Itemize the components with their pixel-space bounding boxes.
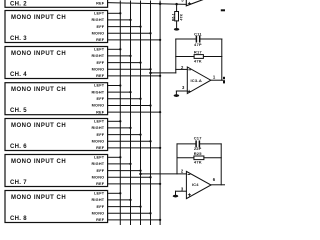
node CH.6 REF junction: [159, 147, 161, 149]
node CH.5 LEFT junction: [119, 84, 121, 86]
wire CH.6 RIGHT stub: [108, 127, 131, 129]
svg-text:REF: REF: [96, 182, 105, 186]
wire pin3 ground stem: [175, 91, 177, 94]
svg-text:REF: REF: [96, 218, 105, 222]
wire CH.4 RIGHT stub: [108, 55, 131, 57]
node CH.3 MONO junction: [149, 32, 151, 34]
svg-text:47K: 47K: [194, 58, 202, 63]
label + of U-top: [188, 2, 190, 4]
svg-text:47K: 47K: [179, 13, 183, 20]
wire CH.8 EFF stub: [108, 206, 141, 208]
node CH.5 MONO junction: [149, 104, 151, 106]
wire CH.4 MONO stub: [108, 68, 151, 70]
wire CH.3 REF stub: [108, 39, 161, 41]
block CH.2 (mono input channel, cut at top): [5, 0, 108, 7]
wire CH.6 LEFT stub: [108, 120, 121, 122]
svg-text:MONO INPUT CH: MONO INPUT CH: [11, 159, 66, 165]
wire CH.3 RIGHT stub: [108, 19, 131, 21]
svg-text:MONO: MONO: [92, 140, 105, 144]
wire CH.2 REF to top op-amp: [108, 3, 187, 5]
wire R17 rail right: [203, 56, 221, 58]
svg-text:RIGHT: RIGHT: [91, 126, 104, 130]
node CH.7 MONO junction: [149, 176, 151, 178]
svg-text:MONO INPUT CH: MONO INPUT CH: [11, 123, 66, 129]
op-amp IC3-A: [187, 67, 211, 94]
ground at IC4 pin3: [173, 195, 178, 198]
node CH.8 RIGHT junction: [129, 199, 131, 201]
label minus of IC3-A: [189, 69, 191, 71]
svg-text:IC4: IC4: [192, 182, 199, 187]
svg-text:R17: R17: [194, 49, 203, 54]
node CH.6 LEFT junction: [119, 120, 121, 122]
wire C11 rail left: [176, 38, 196, 40]
node CH.8 MONO junction: [149, 212, 151, 214]
svg-text:MONO INPUT CH: MONO INPUT CH: [11, 195, 66, 201]
wire EFF bus tap to IC4 pin2: [141, 173, 187, 175]
svg-text:LEFT: LEFT: [94, 120, 105, 124]
svg-text:RIGHT: RIGHT: [91, 198, 104, 202]
ground at IC3-A pin3: [174, 94, 179, 97]
svg-text:RIGHT: RIGHT: [91, 54, 104, 58]
block CH.6 (mono input channel): [5, 119, 108, 151]
svg-text:C11: C11: [194, 31, 202, 36]
svg-text:MONO INPUT CH: MONO INPUT CH: [11, 51, 66, 57]
svg-text:EFF: EFF: [97, 133, 105, 137]
wire CH.7 RIGHT stub: [108, 163, 131, 165]
svg-text:CH. 8: CH. 8: [10, 216, 27, 222]
feedback network of IC4: right vertical: [220, 144, 222, 185]
svg-text:LEFT: LEFT: [94, 12, 105, 16]
wire IC4 pin3 input: [176, 190, 187, 192]
node CH.8 EFF junction: [139, 205, 141, 207]
wire R6-1 upper stem: [176, 4, 178, 11]
node CH.3 LEFT junction: [119, 12, 121, 14]
svg-text:R6-1: R6-1: [171, 13, 175, 21]
resistor R6-1: [175, 12, 179, 21]
fragment at right edge near IC3-A output: [223, 77, 225, 79]
svg-text:CH. 6: CH. 6: [10, 144, 27, 150]
wire R25 rail left: [177, 157, 194, 159]
feedback network of IC4: left vertical: [176, 144, 178, 174]
node CH.4 EFF junction: [139, 61, 141, 63]
svg-text:RIGHT: RIGHT: [91, 18, 104, 22]
node CH.4 REF junction: [159, 75, 161, 77]
svg-text:REF: REF: [96, 2, 105, 6]
node CH.3 REF junction: [159, 39, 161, 41]
wire CH.4 REF stub: [108, 75, 161, 77]
svg-text:C17: C17: [194, 135, 203, 140]
wire C11 rail right: [200, 38, 222, 40]
bus MONO (vertical): [150, 1, 152, 225]
svg-text:47P: 47P: [194, 42, 202, 47]
wire C17 rail left: [177, 143, 196, 145]
op-amp IC4: [186, 171, 211, 198]
svg-text:EFF: EFF: [97, 205, 105, 209]
block CH.3 (mono input channel): [5, 11, 108, 43]
svg-text:EFF: EFF: [97, 169, 105, 173]
svg-text:MONO INPUT CH: MONO INPUT CH: [11, 87, 66, 93]
feedback network of IC3-A: left vertical: [175, 39, 177, 73]
wire CH.5 EFF stub: [108, 98, 141, 100]
node CH.7 REF junction: [159, 183, 161, 185]
svg-text:REF: REF: [96, 146, 105, 150]
svg-text:REF: REF: [96, 38, 105, 42]
label plus of IC4: [188, 194, 190, 196]
bus REF (vertical): [159, 1, 161, 225]
capacitor C11: [195, 36, 197, 41]
wire CH.6 MONO stub: [108, 140, 151, 142]
svg-text:IC3-A: IC3-A: [190, 78, 201, 83]
label minus of IC4: [188, 173, 190, 175]
svg-text:RIGHT: RIGHT: [91, 162, 104, 166]
wire CH.8 MONO stub: [108, 212, 151, 214]
svg-text:REF: REF: [96, 110, 105, 114]
node CH.6 EFF junction: [139, 133, 141, 135]
node CH.7 EFF junction: [139, 169, 141, 171]
wire IC4 output: [211, 184, 225, 186]
node CH.8 LEFT junction: [119, 192, 121, 194]
resistor R25: [194, 156, 204, 160]
svg-text:EFF: EFF: [97, 25, 105, 29]
wire CH.7 MONO stub: [108, 176, 151, 178]
svg-text:LEFT: LEFT: [94, 84, 105, 88]
svg-text:47K: 47K: [194, 160, 202, 165]
ground below R6-1: [174, 28, 179, 31]
wire R17 rail left: [176, 56, 194, 58]
wire CH.6 REF stub: [108, 147, 161, 149]
node CH.4 RIGHT junction: [129, 55, 131, 57]
wire R25 rail right: [204, 157, 221, 159]
node CH.7 LEFT junction: [119, 156, 121, 158]
node CH.6 MONO junction: [149, 140, 151, 142]
bus EFF (vertical): [140, 1, 142, 225]
wire CH.4 EFF stub: [108, 62, 141, 64]
svg-text:LEFT: LEFT: [94, 48, 105, 52]
node CH.3 RIGHT junction: [129, 19, 131, 21]
wire CH.3 MONO stub: [108, 32, 151, 34]
bus RIGHT (vertical): [130, 1, 132, 225]
node MONO bus tap junction: [149, 72, 152, 75]
node CH.5 RIGHT junction: [129, 91, 131, 93]
wire CH.5 LEFT stub: [108, 85, 121, 87]
wire CH.7 REF stub: [108, 183, 161, 185]
svg-text:MONO INPUT CH: MONO INPUT CH: [11, 15, 66, 21]
wire IC4 pin3 ground stem: [175, 191, 177, 195]
wire CH.3 LEFT stub: [108, 12, 121, 14]
svg-text:CH. 2: CH. 2: [10, 1, 27, 7]
svg-text:MONO: MONO: [92, 68, 105, 72]
wire CH.3 EFF stub: [108, 26, 141, 28]
svg-text:R25: R25: [194, 151, 203, 156]
wire CH.4 LEFT stub: [108, 48, 121, 50]
block CH.7 (mono input channel): [5, 155, 108, 187]
node CH.5 EFF junction: [139, 98, 141, 100]
wire CH.8 LEFT stub: [108, 192, 121, 194]
node CH.3 EFF junction: [139, 25, 141, 27]
svg-text:CH. 7: CH. 7: [10, 180, 27, 186]
wire CH.5 RIGHT stub: [108, 91, 131, 93]
svg-text:LEFT: LEFT: [94, 156, 105, 160]
node CH.8 REF junction: [159, 219, 161, 221]
node CH.6 RIGHT junction: [129, 127, 131, 129]
wire CH.8 REF stub: [108, 219, 161, 221]
wire CH.7 EFF stub: [108, 170, 141, 172]
svg-text:EFF: EFF: [97, 97, 105, 101]
wire IC3-A pin3 input: [176, 90, 187, 92]
svg-text:EFF: EFF: [97, 61, 105, 65]
node EFF bus tap junction: [139, 173, 142, 176]
wire CH.8 RIGHT stub: [108, 199, 131, 201]
svg-text:CH. 3: CH. 3: [10, 36, 27, 42]
svg-text:CH. 5: CH. 5: [10, 108, 27, 114]
capacitor C17: [195, 141, 197, 146]
svg-text:MONO: MONO: [92, 176, 105, 180]
block CH.4 (mono input channel): [5, 47, 108, 79]
svg-text:MONO: MONO: [92, 32, 105, 36]
op-amp U-top (cut at top edge): [186, 0, 213, 6]
feedback network of IC3-A: right vertical: [221, 39, 223, 80]
block CH.5 (mono input channel): [5, 83, 108, 115]
node CH.5 REF junction: [159, 111, 161, 113]
wire CH.6 EFF stub: [108, 134, 141, 136]
bus LEFT (vertical): [119, 1, 121, 225]
fragment at top right edge: [221, 9, 225, 11]
wire IC3-A output: [211, 79, 225, 81]
svg-text:REF: REF: [96, 74, 105, 78]
wire CH.5 MONO stub: [108, 105, 151, 107]
block CH.8 (mono input channel): [5, 191, 108, 223]
node CH.7 RIGHT junction: [129, 163, 131, 165]
node CH.4 LEFT junction: [119, 48, 121, 50]
wire R6-1 lower stem: [176, 21, 178, 28]
wire MONO bus tap to IC3-A: [151, 72, 176, 74]
svg-text:RIGHT: RIGHT: [91, 90, 104, 94]
wire CH.7 LEFT stub: [108, 156, 121, 158]
svg-text:CH. 4: CH. 4: [10, 72, 27, 78]
wire IC3-A pin2 input: [176, 68, 188, 70]
svg-text:MONO: MONO: [92, 212, 105, 216]
label plus of IC3-A: [188, 90, 190, 92]
node R6-1 top junction: [175, 3, 178, 6]
wire CH.5 REF stub: [108, 111, 161, 113]
node CH.4 MONO junction: [149, 68, 151, 70]
svg-text:LEFT: LEFT: [94, 192, 105, 196]
wire C17 rail right: [200, 143, 221, 145]
resistor R17: [194, 55, 203, 59]
svg-text:MONO: MONO: [92, 104, 105, 108]
node REF bus junction on top wire: [159, 3, 162, 6]
